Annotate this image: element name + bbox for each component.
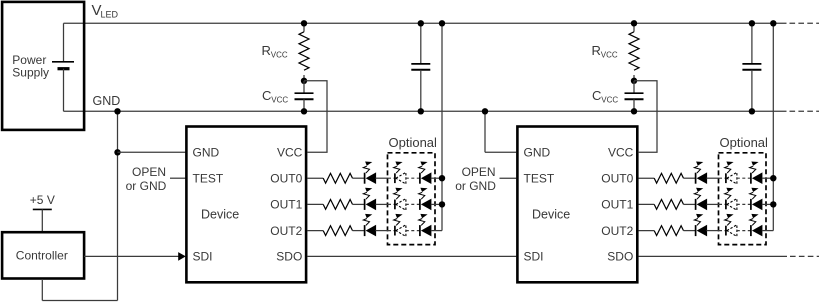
node V_LED label — [92, 2, 119, 20]
svg-text:Supply: Supply — [12, 66, 49, 80]
svg-text:OUT2: OUT2 — [601, 224, 633, 238]
+5 V supply tap — [33, 209, 52, 232]
LED D17 optional — [725, 214, 737, 237]
svg-text:Device: Device — [201, 208, 239, 222]
resistor RVCC1 — [299, 23, 309, 81]
wire D1 to optional box — [376, 177, 389, 179]
svg-text:OUT1: OUT1 — [601, 198, 633, 212]
wire R2 to LED — [353, 230, 365, 232]
svg-text:R: R — [592, 43, 601, 58]
svg-text:OUT2: OUT2 — [270, 224, 302, 238]
wire dashed to D2 — [388, 177, 395, 179]
controller box — [2, 232, 84, 278]
junction RVCC2/CVCC2 node — [631, 78, 637, 84]
junction row2 on LED rail — [439, 201, 445, 207]
svg-text:Controller: Controller — [16, 248, 68, 262]
svg-text:GND: GND — [524, 146, 551, 160]
wire OUT0 to R — [638, 177, 654, 179]
svg-text:OUT1: OUT1 — [270, 198, 302, 212]
svg-text:+5 V: +5 V — [30, 193, 55, 207]
junction GND rail / U1 ground — [114, 108, 120, 114]
capacitor CVCC2 — [625, 81, 644, 112]
junction LED rail 1 on V_LED rail — [439, 20, 445, 26]
junction row2 on LED rail 2 — [770, 201, 776, 207]
LED D3 optional — [419, 162, 432, 185]
wire OUT0 to R — [307, 177, 323, 179]
OUT1 string row 2 U2 — [638, 188, 776, 211]
resistor R4 — [654, 200, 683, 210]
svg-text:Optional: Optional — [389, 135, 438, 150]
node OPEN or GND label U1 — [126, 165, 167, 193]
junction row1 on LED rail — [439, 175, 445, 181]
svg-text:GND: GND — [193, 146, 220, 160]
wire dashed to D14 — [719, 203, 726, 205]
wire controller to SDI — [84, 255, 179, 257]
svg-text:Optional: Optional — [720, 135, 769, 150]
wire dashed D2 to D3 — [406, 177, 420, 179]
svg-text:SDO: SDO — [276, 250, 302, 264]
junction RVCC1/CVCC1 node — [301, 78, 307, 84]
wire U2 GND pin — [485, 151, 516, 153]
wire D6 to rail — [431, 203, 442, 205]
svg-text:TEST: TEST — [193, 172, 224, 186]
svg-text:OPEN: OPEN — [462, 165, 496, 179]
wire LED anode rail 1 — [441, 23, 443, 230]
svg-text:OPEN: OPEN — [132, 165, 166, 179]
LED D6 optional — [419, 188, 432, 211]
wire D18 to rail — [762, 230, 774, 232]
LED D1 — [363, 162, 376, 185]
device U1 box — [186, 127, 306, 283]
LED D15 optional — [750, 188, 763, 211]
resistor RVCC2 — [629, 23, 639, 81]
wire GND rail dashed continuation — [790, 110, 819, 112]
wire OUT2 to R — [638, 230, 654, 232]
svg-text:R: R — [262, 43, 271, 58]
wire D12 to rail — [762, 177, 774, 179]
OUT2 string row 3 U2 — [638, 214, 773, 237]
wire R5 to LED — [684, 230, 696, 232]
LED D10 — [694, 162, 707, 185]
capacitor CVCC1 — [295, 81, 314, 112]
wire dashed to D17 — [719, 230, 726, 232]
wire R0 to LED — [353, 177, 365, 179]
wire U1 TEST stub — [170, 177, 186, 179]
wire dashed D11 to D12 — [737, 177, 751, 179]
wire dashed to D5 — [388, 203, 395, 205]
LED D14 optional — [725, 188, 737, 211]
wire D13 to optional box — [707, 203, 720, 205]
resistor R0 — [323, 173, 352, 183]
wire VCC tap U2 — [634, 81, 657, 153]
wire U2 TEST stub — [500, 177, 517, 179]
LED D12 optional — [750, 162, 763, 185]
wire GND vertical U1 — [117, 111, 119, 300]
junction CVCC1 on GND rail — [301, 108, 307, 114]
svg-text:TEST: TEST — [524, 172, 555, 186]
svg-text:VCC: VCC — [277, 146, 303, 160]
svg-text:OUT0: OUT0 — [270, 172, 302, 186]
svg-text:SDI: SDI — [524, 250, 544, 264]
wire D9 to rail — [431, 230, 442, 232]
svg-text:SDI: SDI — [193, 250, 213, 264]
wire VCC tap U1 — [304, 81, 327, 153]
svg-text:or GND: or GND — [126, 179, 167, 193]
wire SDO2 dashed continuation — [790, 255, 819, 257]
wire OUT1 to R — [638, 203, 654, 205]
optional box 1 — [388, 153, 436, 245]
LED D11 optional — [725, 162, 737, 185]
junction U1 GND pin tee — [114, 149, 120, 155]
svg-text:VCC: VCC — [601, 96, 618, 105]
LED D9 optional — [419, 214, 432, 237]
wire dashed to D8 — [388, 230, 395, 232]
svg-text:VCC: VCC — [608, 146, 634, 160]
capacitor C2 bulk — [742, 23, 761, 111]
wire OUT2 to R — [307, 230, 323, 232]
wire U1 GND pin — [118, 151, 186, 153]
LED D16 — [694, 214, 707, 237]
junction RVCC2 top on V_LED rail — [631, 20, 637, 26]
LED D8 optional — [394, 214, 406, 237]
svg-text:or GND: or GND — [455, 179, 496, 193]
label CVCC1 — [262, 88, 288, 105]
junction GND rail / U2 ground — [482, 108, 488, 114]
LED D5 optional — [394, 188, 406, 211]
label RVCC2 — [592, 43, 618, 60]
junction RVCC1 top on V_LED rail — [301, 20, 307, 26]
junction row1 on LED rail 2 — [770, 175, 776, 181]
resistor R5 — [654, 226, 683, 236]
power supply box — [2, 2, 84, 130]
svg-text:C: C — [262, 88, 271, 103]
device U2 box — [517, 127, 637, 283]
node OPEN or GND label U2 — [455, 165, 496, 193]
wire SDO2 out — [638, 255, 787, 257]
resistor R2 — [323, 226, 352, 236]
LED D4 — [363, 188, 376, 211]
resistor R3 — [654, 173, 683, 183]
wire LED anode rail 2 — [772, 23, 774, 230]
LED D7 — [363, 214, 376, 237]
svg-text:GND: GND — [93, 94, 121, 108]
wire D10 to optional box — [707, 177, 720, 179]
junction C1 bottom on GND rail — [418, 108, 424, 114]
battery BT1 — [52, 23, 74, 111]
svg-text:Device: Device — [532, 208, 570, 222]
wire dashed D5 to D6 — [406, 203, 420, 205]
capacitor C1 bulk — [411, 23, 430, 111]
wire R3 to LED — [684, 177, 696, 179]
power supply label — [12, 53, 49, 80]
LED D18 optional — [750, 214, 763, 237]
svg-text:VCC: VCC — [601, 51, 618, 60]
svg-text:LED: LED — [101, 10, 119, 20]
wire D16 to optional box — [707, 230, 720, 232]
wire D15 to rail — [762, 203, 774, 205]
OUT1 string row 2 — [307, 188, 445, 211]
wire dashed to D11 — [719, 177, 726, 179]
wire V_LED rail — [64, 22, 787, 24]
label RVCC1 — [262, 43, 288, 60]
svg-text:VCC: VCC — [271, 96, 288, 105]
LED D13 — [694, 188, 707, 211]
resistor R1 — [323, 200, 352, 210]
arrowhead into SDI U1 — [178, 252, 186, 261]
wire V_LED rail dashed continuation — [790, 22, 819, 24]
wire dashed D8 to D9 — [406, 230, 420, 232]
wire dashed D17 to D18 — [737, 230, 751, 232]
junction C1 top on V_LED rail — [418, 20, 424, 26]
OUT0 string row 1 — [307, 162, 445, 185]
label CVCC2 — [592, 88, 618, 105]
optional box 2 — [719, 153, 767, 245]
LED D2 optional — [394, 162, 406, 185]
wire controller ground down — [42, 279, 117, 301]
wire GND rail — [64, 110, 787, 112]
wire dashed D14 to D15 — [737, 203, 751, 205]
junction LED rail 2 on V_LED rail — [770, 20, 776, 26]
svg-text:OUT0: OUT0 — [601, 172, 633, 186]
wire D3 to rail — [431, 177, 442, 179]
wire R4 to LED — [684, 203, 696, 205]
junction CVCC2 on GND rail — [631, 108, 637, 114]
OUT2 string row 3 — [307, 214, 442, 237]
svg-text:VCC: VCC — [271, 51, 288, 60]
wire GND vertical U2 — [484, 111, 486, 152]
junction C2 bottom on GND rail — [749, 108, 755, 114]
wire SDO1 to SDI2 — [307, 255, 516, 257]
svg-text:C: C — [592, 88, 601, 103]
wire OUT1 to R — [307, 203, 323, 205]
svg-text:SDO: SDO — [607, 250, 633, 264]
OUT0 string row 1 U2 — [638, 162, 776, 185]
junction C2 top on V_LED rail — [749, 20, 755, 26]
wire D4 to optional box — [376, 203, 389, 205]
wire R1 to LED — [353, 203, 365, 205]
wire D7 to optional box — [376, 230, 389, 232]
